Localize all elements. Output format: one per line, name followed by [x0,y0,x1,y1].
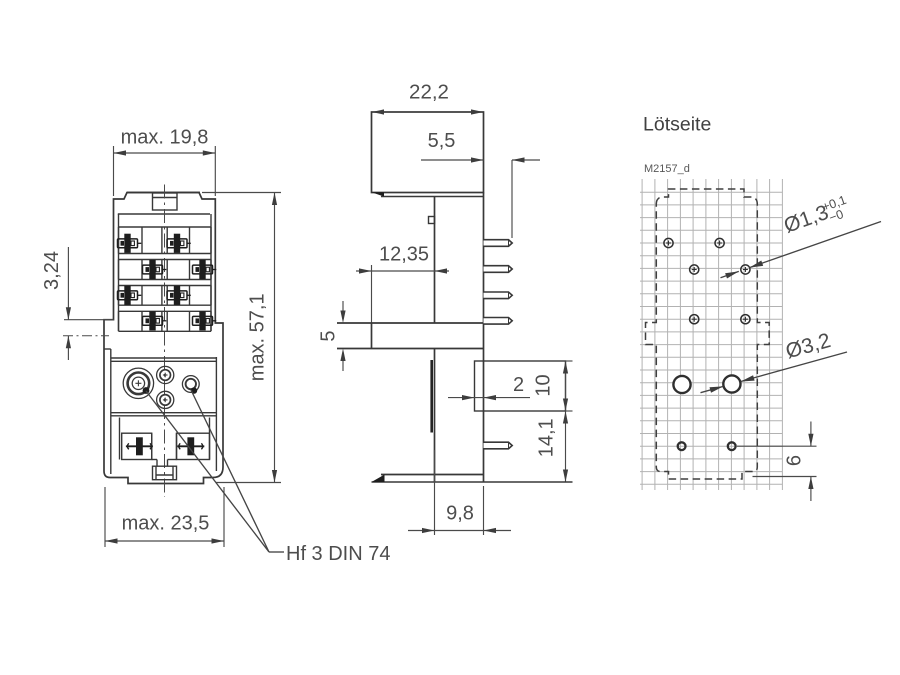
front view top edge raised center [127,192,200,194]
pin grid (2.54mm) [641,179,643,490]
svg-text:12,35: 12,35 [379,244,429,266]
mounting hole right (3.2mm) [723,375,740,392]
svg-text:10: 10 [533,374,555,396]
contact terminal 7 [143,311,167,330]
front view inner top line [118,213,210,215]
base plate (side view) [381,474,484,476]
contact terminal 4 [193,260,217,279]
solder pin 1 [484,240,513,247]
lower pin hole right [728,442,736,450]
solder hole B2 (1.3mm) [741,265,750,274]
contact terminal 8 [193,311,217,330]
screw small lower [157,391,174,408]
contact terminal 1 [118,234,142,253]
svg-text:max. 19,8: max. 19,8 [121,127,209,149]
solder pin 3 [484,292,513,299]
leader and label Ø1,3 +0,1/-0 [750,222,882,268]
svg-text:Lötseite: Lötseite [643,114,711,136]
lower pin hole left [678,442,686,450]
lower body interior lines [104,348,111,350]
mounting flange (side view) [337,322,484,324]
compartment bottom double line [111,412,217,414]
keying tab top center [153,193,178,210]
leader dot on large screw [143,387,150,394]
solder hole A2 (1.3mm) [715,238,724,247]
solder pin 2 [484,266,513,273]
svg-text:9,8: 9,8 [446,503,474,525]
inner side verticals [118,214,120,331]
svg-text:6: 6 [784,455,806,466]
contact terminal 2 [167,234,191,253]
dimension 6 (hole offset) [737,445,817,447]
contact blade (bold) [430,360,433,433]
contact terminal 10 (horizontal) [177,437,204,455]
lower stem (side view) [434,349,436,483]
front view body outline [104,193,223,484]
svg-text:max. 23,5: max. 23,5 [122,513,210,535]
svg-text:5: 5 [318,330,340,341]
contact terminal 5 [118,286,142,305]
mounting hole left (3.2mm) [673,376,690,393]
contact terminal 9 (horizontal) [126,437,153,455]
svg-text:22,2: 22,2 [409,81,449,104]
svg-text:3,24: 3,24 [41,251,63,290]
side view stem [434,197,436,324]
solder hole A1 (1.3mm) [664,238,673,247]
retaining tab (side view) [475,361,566,411]
lower compartment cells [122,433,152,459]
screw head large M1 [123,368,153,398]
solder hole C2 (1.3mm) [741,315,750,324]
svg-text:5,5: 5,5 [428,130,456,152]
svg-text:2: 2 [513,374,524,396]
body outline solder side (dashed) [646,189,770,479]
dimension max. 57,1 (height) [202,192,281,194]
svg-text:Hf 3 DIN 74: Hf 3 DIN 74 [286,543,390,565]
solder hole C1 (1.3mm) [690,315,699,324]
center line (dash-dot) [164,185,166,498]
solder hole B1 (1.3mm) [690,265,699,274]
svg-text:M2157_d: M2157_d [644,163,690,175]
bottom center tab [153,466,177,480]
screw right [182,376,199,393]
leader and label Ø3,2 [741,352,847,382]
compartment top double line [111,357,217,359]
solder pin 5 (lower) [484,442,513,449]
contact terminal 3 [143,260,167,279]
flange bottom lip [381,196,484,198]
contact terminal 6 [167,286,191,305]
svg-text:14,1: 14,1 [536,418,558,457]
contact cell grid [119,226,212,228]
screw small upper [157,366,174,383]
svg-text:max. 57,1: max. 57,1 [247,293,269,381]
side view top flange [372,112,484,193]
small latch notch on stem [429,217,435,224]
solder pin 4 [484,318,513,325]
leader lines to screws [146,391,269,552]
